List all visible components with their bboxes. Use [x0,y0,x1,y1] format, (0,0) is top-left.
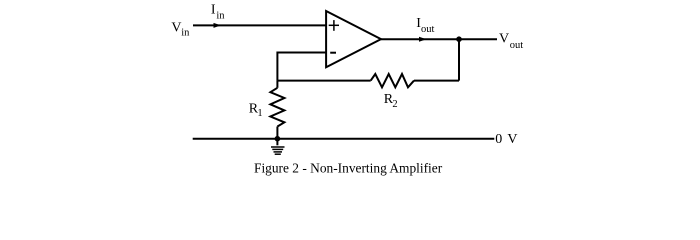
wire feedback node down to R1 [276,81,278,88]
resistor R1 [270,88,284,127]
svg-text:in: in [181,27,190,38]
ground rail 0V [193,138,495,140]
ground symbol [271,139,285,155]
svg-text:1: 1 [257,108,262,119]
wire op-amp output to Vout [381,38,497,40]
wire output node down to feedback [458,39,460,80]
wire Vin to op-amp + input [193,24,326,26]
label R2 [384,92,398,110]
label R1 [249,101,263,119]
svg-text:2: 2 [392,99,397,110]
svg-text:V: V [171,21,181,36]
current label Iout [416,16,434,35]
node 0V label [495,132,517,147]
wire R1 down to ground rail [276,127,278,139]
junction dot at output node [456,36,462,42]
svg-text:in: in [216,11,225,22]
wire minus input to feedback node [277,52,326,54]
svg-text:out: out [510,40,524,51]
svg-text:Figure 2 - Non-Inverting Ampli: Figure 2 - Non-Inverting Amplifier [254,160,443,175]
node Vin label [171,21,190,39]
svg-text:out: out [421,24,435,35]
wire feedback horizontal right [414,80,459,82]
arrow Iin [214,23,222,28]
arrow Iout [419,37,427,42]
svg-text:I: I [211,3,216,18]
svg-text:0: 0 [495,132,502,147]
wire feedback horizontal left [277,80,370,82]
wire feedback vertical left [276,52,278,81]
svg-text:V: V [507,132,517,147]
junction dot on ground rail [275,136,281,142]
node Vout label [499,32,523,52]
op-amp U1 triangle [326,11,381,67]
resistor R2 [371,74,414,87]
svg-text:V: V [499,32,509,47]
op-amp - input sign [330,52,336,54]
current label Iin [211,3,225,22]
op-amp + input sign [329,20,339,31]
